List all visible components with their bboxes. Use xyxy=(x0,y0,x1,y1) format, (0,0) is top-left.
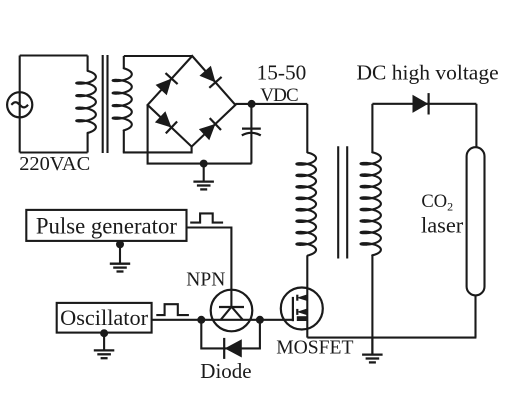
svg-text:220VAC: 220VAC xyxy=(19,153,90,175)
svg-text:MOSFET: MOSFET xyxy=(276,338,353,359)
svg-text:Diode: Diode xyxy=(200,359,251,383)
svg-text:laser: laser xyxy=(421,212,464,237)
svg-text:NPN: NPN xyxy=(186,270,225,291)
svg-text:VDC: VDC xyxy=(260,85,298,106)
svg-text:Pulse generator: Pulse generator xyxy=(36,214,178,239)
svg-text:Oscillator: Oscillator xyxy=(60,305,148,330)
svg-text:DC high voltage: DC high voltage xyxy=(357,60,499,84)
svg-text:15-50: 15-50 xyxy=(257,61,307,85)
